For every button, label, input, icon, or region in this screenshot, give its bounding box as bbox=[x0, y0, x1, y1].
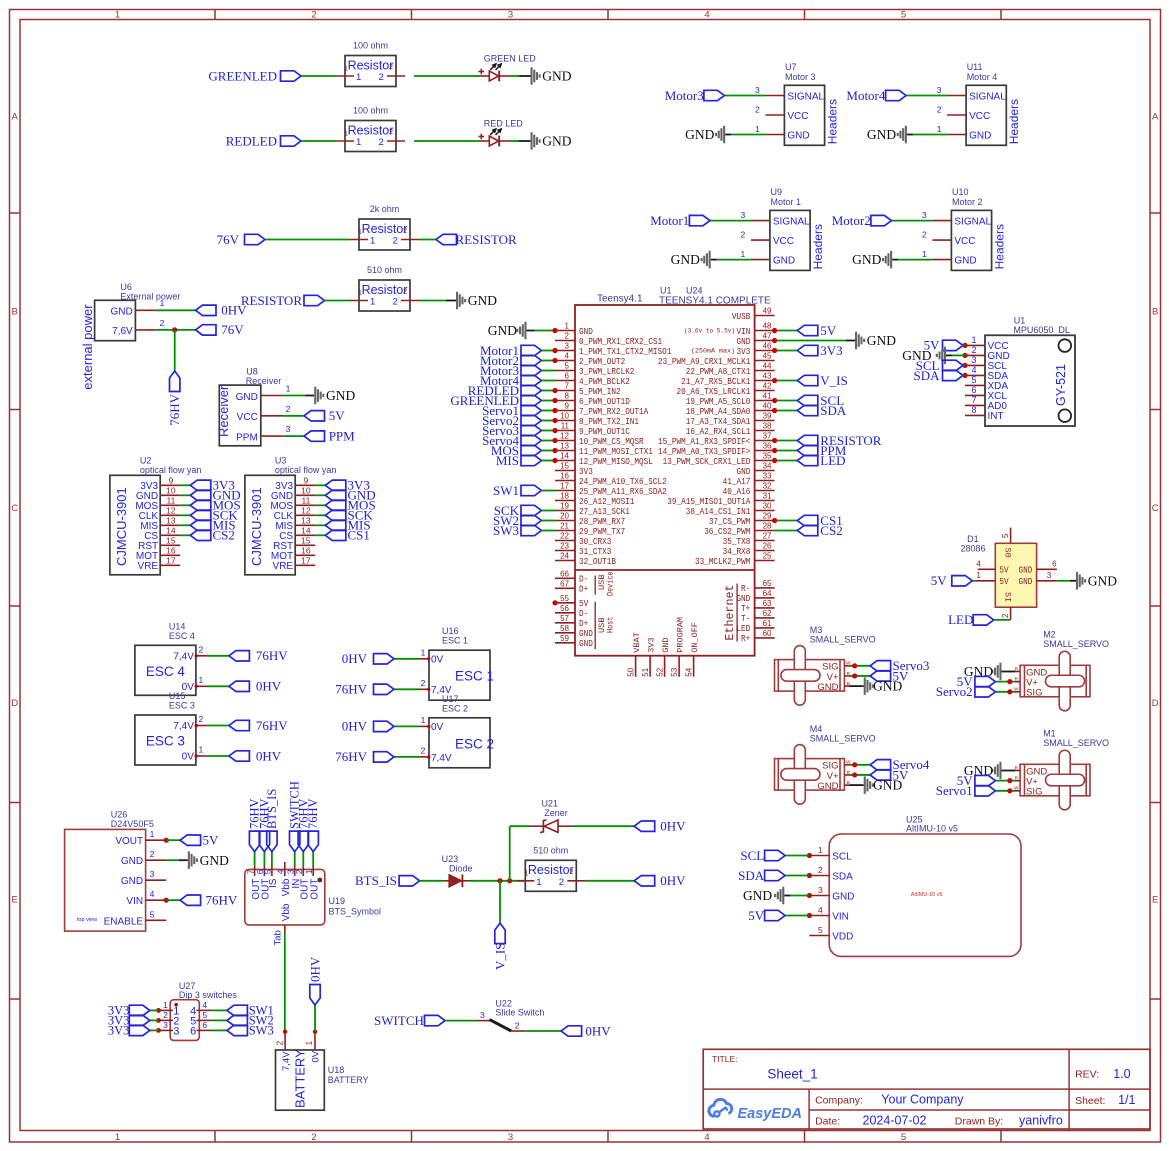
svg-text:VIN: VIN bbox=[126, 896, 143, 907]
svg-text:VOUT: VOUT bbox=[115, 836, 143, 847]
svg-text:VRE: VRE bbox=[138, 561, 159, 572]
svg-text:GND: GND bbox=[579, 638, 593, 649]
svg-text:16: 16 bbox=[560, 472, 569, 481]
svg-text:3: 3 bbox=[741, 210, 746, 220]
svg-text:1: 1 bbox=[358, 288, 362, 297]
svg-text:V_IS: V_IS bbox=[493, 943, 508, 970]
svg-text:U7: U7 bbox=[785, 62, 797, 72]
svg-text:76HV: 76HV bbox=[256, 648, 288, 663]
svg-text:S0: S0 bbox=[1003, 548, 1013, 558]
svg-text:1: 1 bbox=[160, 298, 165, 308]
svg-text:M4: M4 bbox=[810, 724, 823, 734]
svg-text:ESC 3: ESC 3 bbox=[169, 701, 195, 711]
svg-text:LED: LED bbox=[948, 612, 973, 627]
svg-text:1: 1 bbox=[421, 647, 426, 657]
svg-text:Tab: Tab bbox=[272, 930, 283, 945]
svg-text:1: 1 bbox=[304, 1041, 314, 1046]
svg-text:12: 12 bbox=[301, 506, 311, 516]
svg-text:B: B bbox=[847, 681, 850, 687]
svg-text:GND: GND bbox=[200, 853, 229, 868]
svg-text:GND: GND bbox=[121, 856, 143, 867]
svg-text:1: 1 bbox=[344, 129, 348, 138]
svg-text:GND: GND bbox=[110, 306, 132, 317]
svg-text:Ethernet: Ethernet bbox=[724, 585, 737, 641]
svg-text:2: 2 bbox=[163, 1010, 168, 1020]
svg-text:3: 3 bbox=[937, 85, 942, 95]
svg-text:SIGNAL: SIGNAL bbox=[969, 91, 1006, 102]
svg-text:66: 66 bbox=[560, 569, 569, 578]
svg-text:ESC 3: ESC 3 bbox=[146, 734, 185, 749]
svg-text:Motor 1: Motor 1 bbox=[771, 197, 802, 207]
svg-text:2: 2 bbox=[421, 678, 426, 688]
svg-text:5: 5 bbox=[818, 925, 823, 935]
svg-text:TITLE:: TITLE: bbox=[712, 1054, 738, 1064]
svg-text:41: 41 bbox=[763, 392, 772, 401]
svg-text:GND: GND bbox=[488, 323, 517, 338]
svg-text:9: 9 bbox=[565, 402, 570, 411]
svg-text:VUSB: VUSB bbox=[732, 311, 751, 322]
svg-text:Dip 3 switches: Dip 3 switches bbox=[179, 990, 238, 1000]
svg-text:U24: U24 bbox=[686, 286, 703, 296]
svg-text:2: 2 bbox=[403, 226, 407, 235]
svg-text:1/1: 1/1 bbox=[1118, 1093, 1135, 1107]
svg-text:0V: 0V bbox=[431, 722, 444, 733]
svg-text:7: 7 bbox=[971, 395, 976, 405]
svg-text:Servo1: Servo1 bbox=[936, 783, 973, 798]
svg-text:PPM: PPM bbox=[329, 428, 355, 443]
svg-text:SMALL_SERVO: SMALL_SERVO bbox=[810, 634, 876, 644]
svg-text:58: 58 bbox=[560, 624, 569, 633]
svg-text:2: 2 bbox=[741, 230, 746, 240]
svg-text:6: 6 bbox=[1052, 559, 1057, 568]
svg-text:2: 2 bbox=[559, 877, 564, 888]
svg-text:63: 63 bbox=[763, 599, 772, 608]
svg-text:31: 31 bbox=[763, 492, 772, 501]
svg-text:76HV: 76HV bbox=[167, 393, 182, 425]
svg-text:U14: U14 bbox=[169, 621, 186, 631]
svg-text:Device: Device bbox=[607, 571, 616, 596]
svg-text:7,4V: 7,4V bbox=[173, 651, 194, 662]
svg-text:IS: IS bbox=[268, 878, 279, 888]
svg-text:14: 14 bbox=[301, 526, 311, 536]
svg-text:1: 1 bbox=[536, 877, 541, 888]
svg-text:39: 39 bbox=[763, 412, 772, 421]
svg-text:1: 1 bbox=[755, 124, 760, 134]
svg-text:18: 18 bbox=[560, 492, 569, 501]
svg-text:1.0: 1.0 bbox=[1113, 1067, 1130, 1081]
svg-text:5: 5 bbox=[901, 10, 906, 21]
svg-text:R: R bbox=[1015, 676, 1019, 682]
svg-text:CJMCU-3901: CJMCU-3901 bbox=[249, 487, 264, 566]
svg-text:SIGNAL: SIGNAL bbox=[954, 216, 991, 227]
svg-text:0V: 0V bbox=[182, 752, 195, 763]
svg-text:19: 19 bbox=[560, 502, 569, 511]
svg-text:TEENSY4.1 COMPLETE: TEENSY4.1 COMPLETE bbox=[659, 296, 771, 307]
svg-text:54: 54 bbox=[685, 667, 694, 676]
svg-text:M3: M3 bbox=[810, 625, 823, 635]
svg-text:7: 7 bbox=[245, 869, 255, 874]
svg-text:16: 16 bbox=[301, 546, 311, 556]
svg-text:1: 1 bbox=[741, 249, 746, 259]
svg-text:U15: U15 bbox=[169, 691, 186, 701]
svg-text:3: 3 bbox=[286, 424, 291, 434]
svg-text:11: 11 bbox=[166, 496, 175, 506]
svg-text:optical flow yan: optical flow yan bbox=[275, 465, 337, 475]
svg-text:5V: 5V bbox=[999, 576, 1009, 587]
svg-text:3V3: 3V3 bbox=[108, 1023, 130, 1037]
svg-text:Vbb: Vbb bbox=[281, 903, 292, 921]
svg-text:external power: external power bbox=[80, 304, 95, 390]
svg-text:C: C bbox=[11, 503, 18, 514]
svg-text:CS2: CS2 bbox=[213, 527, 235, 542]
svg-text:0HV: 0HV bbox=[256, 748, 282, 763]
svg-text:0HV: 0HV bbox=[585, 1023, 611, 1038]
svg-text:0HV: 0HV bbox=[660, 873, 686, 888]
svg-text:U1: U1 bbox=[1014, 316, 1026, 326]
svg-text:VIN: VIN bbox=[832, 912, 849, 923]
svg-text:Your Company: Your Company bbox=[881, 1093, 964, 1107]
svg-text:VDD: VDD bbox=[832, 932, 853, 943]
svg-text:Servo2: Servo2 bbox=[936, 684, 973, 699]
svg-text:VBAT: VBAT bbox=[632, 632, 642, 652]
svg-text:16: 16 bbox=[166, 546, 176, 556]
svg-text:ESC 2: ESC 2 bbox=[455, 736, 494, 751]
svg-text:1: 1 bbox=[524, 868, 528, 877]
svg-text:U8: U8 bbox=[246, 367, 258, 377]
svg-text:RESISTOR: RESISTOR bbox=[241, 293, 302, 308]
svg-text:SW3: SW3 bbox=[249, 1023, 274, 1037]
svg-text:SIGNAL: SIGNAL bbox=[773, 216, 810, 227]
svg-text:CJMCU-3901: CJMCU-3901 bbox=[114, 487, 129, 566]
svg-text:1: 1 bbox=[163, 1000, 168, 1010]
svg-text:5: 5 bbox=[1001, 533, 1010, 538]
svg-text:3: 3 bbox=[755, 85, 760, 95]
svg-text:1: 1 bbox=[150, 829, 155, 839]
svg-text:2: 2 bbox=[274, 1041, 284, 1046]
svg-text:1: 1 bbox=[971, 335, 976, 345]
svg-text:29: 29 bbox=[763, 512, 772, 521]
svg-text:62: 62 bbox=[763, 609, 772, 618]
svg-text:U19: U19 bbox=[329, 896, 346, 906]
svg-text:17: 17 bbox=[560, 482, 569, 491]
svg-text:12: 12 bbox=[560, 432, 569, 441]
svg-text:8: 8 bbox=[565, 392, 570, 401]
svg-text:VCC: VCC bbox=[969, 111, 990, 122]
svg-text:33_MCLK2_PWM: 33_MCLK2_PWM bbox=[695, 556, 750, 567]
svg-text:GND: GND bbox=[787, 130, 809, 141]
svg-text:15: 15 bbox=[301, 536, 311, 546]
svg-text:2: 2 bbox=[569, 867, 573, 876]
svg-text:0HV: 0HV bbox=[342, 651, 368, 666]
svg-text:17: 17 bbox=[166, 556, 176, 566]
svg-text:5: 5 bbox=[901, 1132, 906, 1143]
svg-text:GND: GND bbox=[817, 781, 838, 792]
svg-text:6: 6 bbox=[971, 385, 976, 395]
svg-text:5: 5 bbox=[565, 362, 570, 371]
svg-text:ESC 4: ESC 4 bbox=[146, 664, 186, 679]
svg-text:Slide Switch: Slide Switch bbox=[495, 1008, 544, 1018]
svg-text:GND: GND bbox=[661, 637, 671, 652]
svg-text:0HV: 0HV bbox=[221, 303, 247, 318]
svg-text:Headers: Headers bbox=[1007, 99, 1021, 144]
svg-text:32: 32 bbox=[763, 482, 772, 491]
svg-text:2: 2 bbox=[937, 105, 942, 115]
svg-text:EasyEDA: EasyEDA bbox=[738, 1106, 802, 1122]
svg-text:64: 64 bbox=[763, 589, 772, 598]
svg-text:1: 1 bbox=[370, 236, 375, 247]
svg-text:SIGNAL: SIGNAL bbox=[787, 91, 824, 102]
svg-text:R: R bbox=[1015, 765, 1019, 771]
svg-text:REDLED: REDLED bbox=[226, 133, 277, 148]
svg-text:GND: GND bbox=[954, 255, 976, 266]
svg-text:GND: GND bbox=[969, 130, 991, 141]
svg-text:3: 3 bbox=[818, 885, 823, 895]
svg-text:R+: R+ bbox=[741, 633, 750, 644]
svg-text:17: 17 bbox=[301, 556, 311, 566]
svg-text:5V: 5V bbox=[748, 908, 765, 923]
svg-text:13: 13 bbox=[166, 516, 176, 526]
svg-text:SMALL_SERVO: SMALL_SERVO bbox=[1043, 639, 1109, 649]
svg-text:48: 48 bbox=[763, 322, 772, 331]
svg-text:LED: LED bbox=[820, 453, 845, 468]
svg-text:2: 2 bbox=[755, 105, 760, 115]
svg-text:Receiver: Receiver bbox=[216, 385, 231, 437]
svg-text:30: 30 bbox=[763, 502, 772, 511]
svg-text:3: 3 bbox=[1047, 571, 1052, 580]
svg-text:4: 4 bbox=[971, 365, 976, 375]
svg-text:3: 3 bbox=[150, 869, 155, 879]
svg-text:1: 1 bbox=[356, 137, 361, 148]
svg-text:2: 2 bbox=[199, 714, 204, 724]
svg-text:2: 2 bbox=[311, 10, 316, 21]
svg-text:Headers: Headers bbox=[992, 224, 1006, 269]
svg-text:1: 1 bbox=[199, 675, 204, 685]
svg-text:45: 45 bbox=[763, 352, 772, 361]
svg-text:33: 33 bbox=[763, 472, 772, 481]
svg-text:Company:: Company: bbox=[815, 1095, 863, 1107]
svg-text:4: 4 bbox=[976, 559, 981, 568]
svg-text:23: 23 bbox=[560, 542, 569, 551]
svg-text:ENABLE: ENABLE bbox=[104, 916, 144, 927]
svg-text:44: 44 bbox=[763, 362, 772, 371]
svg-text:U26: U26 bbox=[111, 810, 128, 820]
svg-text:15: 15 bbox=[560, 462, 569, 471]
svg-text:D24V50F5: D24V50F5 bbox=[111, 819, 154, 829]
svg-text:(250mA max): (250mA max) bbox=[691, 347, 735, 354]
svg-text:AltIMU-10 v5: AltIMU-10 v5 bbox=[906, 824, 958, 834]
svg-text:External power: External power bbox=[120, 292, 180, 302]
svg-text:5: 5 bbox=[263, 869, 273, 874]
svg-text:32_OUT1B: 32_OUT1B bbox=[579, 556, 616, 567]
svg-text:SWITCH: SWITCH bbox=[374, 1013, 424, 1028]
svg-text:CS1: CS1 bbox=[348, 527, 370, 542]
svg-text:22: 22 bbox=[560, 532, 569, 541]
svg-text:4: 4 bbox=[150, 889, 155, 899]
svg-text:40: 40 bbox=[763, 402, 772, 411]
svg-text:6: 6 bbox=[565, 372, 570, 381]
svg-text:2: 2 bbox=[393, 236, 398, 247]
svg-text:SDA: SDA bbox=[832, 872, 853, 883]
svg-text:D: D bbox=[1152, 698, 1159, 709]
svg-text:Drawn By:: Drawn By: bbox=[955, 1116, 1003, 1128]
svg-text:GND: GND bbox=[671, 252, 700, 267]
svg-text:2: 2 bbox=[389, 127, 393, 136]
svg-text:Motor2: Motor2 bbox=[832, 213, 871, 228]
svg-text:1: 1 bbox=[937, 124, 942, 134]
svg-text:Resistor: Resistor bbox=[528, 863, 574, 877]
svg-text:SDA: SDA bbox=[738, 868, 765, 883]
svg-text:0V: 0V bbox=[431, 655, 444, 666]
svg-text:4: 4 bbox=[565, 352, 570, 361]
svg-text:3: 3 bbox=[508, 1132, 513, 1143]
svg-text:GREEN LED: GREEN LED bbox=[484, 53, 537, 63]
svg-text:1: 1 bbox=[976, 571, 981, 580]
svg-text:76HV: 76HV bbox=[206, 893, 238, 908]
svg-text:8: 8 bbox=[971, 405, 976, 415]
svg-text:4: 4 bbox=[704, 10, 709, 21]
svg-text:U1: U1 bbox=[660, 286, 672, 296]
svg-text:SDA: SDA bbox=[913, 368, 940, 383]
svg-text:5V: 5V bbox=[203, 833, 220, 848]
svg-text:9: 9 bbox=[304, 476, 309, 486]
svg-text:35: 35 bbox=[763, 452, 772, 461]
svg-text:5: 5 bbox=[202, 1010, 207, 1020]
svg-text:Motor 3: Motor 3 bbox=[785, 72, 816, 82]
svg-text:2: 2 bbox=[971, 345, 976, 355]
svg-text:GND: GND bbox=[1019, 576, 1033, 587]
svg-text:B: B bbox=[12, 307, 18, 318]
svg-text:6: 6 bbox=[202, 1020, 207, 1030]
svg-text:GND: GND bbox=[773, 255, 795, 266]
svg-text:GND: GND bbox=[1088, 573, 1117, 588]
svg-text:M1: M1 bbox=[1043, 728, 1056, 738]
svg-text:3V3: 3V3 bbox=[646, 637, 656, 652]
svg-text:55: 55 bbox=[560, 594, 569, 603]
svg-text:GND: GND bbox=[542, 134, 571, 149]
svg-text:SW1: SW1 bbox=[493, 483, 519, 498]
svg-text:SI: SI bbox=[1003, 592, 1013, 602]
svg-text:PPM: PPM bbox=[236, 432, 258, 443]
svg-text:2: 2 bbox=[565, 332, 570, 341]
svg-text:2: 2 bbox=[922, 230, 927, 240]
svg-text:4: 4 bbox=[704, 1132, 709, 1143]
svg-text:76HV: 76HV bbox=[335, 682, 367, 697]
svg-text:49: 49 bbox=[763, 307, 772, 316]
svg-text:2: 2 bbox=[294, 869, 304, 874]
svg-text:1: 1 bbox=[199, 745, 204, 755]
svg-text:56: 56 bbox=[560, 604, 569, 613]
svg-text:3: 3 bbox=[173, 1025, 179, 1037]
svg-text:ESC 1: ESC 1 bbox=[442, 636, 468, 646]
svg-text:67: 67 bbox=[560, 579, 569, 588]
svg-text:SDA: SDA bbox=[820, 403, 847, 418]
svg-text:0HV: 0HV bbox=[308, 956, 323, 982]
svg-text:10: 10 bbox=[166, 486, 176, 496]
svg-text:Sheet_1: Sheet_1 bbox=[767, 1067, 817, 1082]
svg-text:50: 50 bbox=[627, 667, 636, 676]
svg-text:21: 21 bbox=[560, 522, 569, 531]
svg-text:51: 51 bbox=[641, 667, 650, 676]
svg-text:U11: U11 bbox=[967, 62, 983, 72]
svg-text:GND: GND bbox=[873, 679, 902, 694]
svg-text:7: 7 bbox=[565, 382, 570, 391]
svg-text:13: 13 bbox=[301, 516, 311, 526]
svg-text:0HV: 0HV bbox=[660, 819, 686, 834]
svg-text:2: 2 bbox=[818, 865, 823, 875]
svg-text:2: 2 bbox=[379, 72, 384, 83]
svg-text:57: 57 bbox=[560, 614, 569, 623]
svg-text:RED LED: RED LED bbox=[484, 118, 524, 128]
svg-text:BATTERY: BATTERY bbox=[328, 1075, 369, 1085]
svg-text:59: 59 bbox=[560, 634, 569, 643]
svg-text:Resistor: Resistor bbox=[348, 58, 394, 72]
svg-text:GREENLED: GREENLED bbox=[208, 68, 277, 83]
svg-text:GND: GND bbox=[121, 876, 143, 887]
svg-text:GND: GND bbox=[326, 388, 355, 403]
svg-text:10: 10 bbox=[560, 412, 569, 421]
svg-text:28086: 28086 bbox=[960, 544, 985, 554]
svg-text:ESC 1: ESC 1 bbox=[455, 669, 494, 684]
svg-text:V_IS: V_IS bbox=[820, 373, 847, 388]
svg-text:A: A bbox=[1152, 112, 1159, 123]
svg-text:U2: U2 bbox=[140, 456, 152, 466]
svg-text:U6: U6 bbox=[120, 282, 132, 292]
svg-text:36: 36 bbox=[763, 442, 772, 451]
svg-text:4: 4 bbox=[818, 905, 823, 915]
svg-text:INT: INT bbox=[988, 411, 1004, 422]
svg-text:1: 1 bbox=[922, 249, 927, 259]
svg-text:76V: 76V bbox=[221, 322, 244, 337]
svg-text:2: 2 bbox=[1001, 613, 1010, 618]
svg-text:GND: GND bbox=[685, 127, 714, 142]
svg-text:R: R bbox=[1015, 775, 1019, 781]
svg-text:D1: D1 bbox=[967, 534, 979, 544]
svg-text:1: 1 bbox=[344, 64, 348, 73]
svg-text:14: 14 bbox=[560, 452, 569, 461]
svg-text:U9: U9 bbox=[771, 187, 783, 197]
svg-text:ON_OFF: ON_OFF bbox=[690, 622, 700, 653]
svg-text:Date:: Date: bbox=[815, 1116, 840, 1128]
svg-text:2k ohm: 2k ohm bbox=[370, 204, 400, 214]
svg-text:27: 27 bbox=[763, 532, 772, 541]
svg-text:U3: U3 bbox=[275, 456, 287, 466]
svg-text:MIS: MIS bbox=[496, 453, 519, 468]
svg-text:5: 5 bbox=[971, 375, 976, 385]
svg-text:Zener: Zener bbox=[544, 808, 568, 818]
svg-text:1: 1 bbox=[421, 715, 426, 725]
svg-text:60: 60 bbox=[763, 629, 772, 638]
svg-text:25: 25 bbox=[763, 552, 772, 561]
svg-text:SMALL_SERVO: SMALL_SERVO bbox=[810, 733, 876, 743]
svg-text:B: B bbox=[1152, 307, 1158, 318]
svg-text:Motor1: Motor1 bbox=[650, 213, 689, 228]
svg-text:11: 11 bbox=[301, 496, 310, 506]
svg-text:100 ohm: 100 ohm bbox=[353, 41, 388, 51]
svg-text:Host: Host bbox=[607, 617, 616, 634]
svg-text:3: 3 bbox=[565, 342, 570, 351]
svg-text:Motor 4: Motor 4 bbox=[967, 72, 998, 82]
svg-text:AltIMU-10 v5: AltIMU-10 v5 bbox=[911, 892, 943, 898]
svg-text:optical flow yan: optical flow yan bbox=[140, 465, 202, 475]
svg-text:BTS_IS: BTS_IS bbox=[355, 873, 397, 888]
svg-text:510 ohm: 510 ohm bbox=[367, 265, 402, 275]
svg-text:5V: 5V bbox=[999, 565, 1009, 576]
svg-text:E: E bbox=[12, 895, 18, 906]
svg-text:2024-07-02: 2024-07-02 bbox=[863, 1114, 927, 1128]
svg-text:GND: GND bbox=[1019, 565, 1033, 576]
svg-text:76V: 76V bbox=[217, 232, 240, 247]
svg-text:3: 3 bbox=[480, 1010, 485, 1020]
